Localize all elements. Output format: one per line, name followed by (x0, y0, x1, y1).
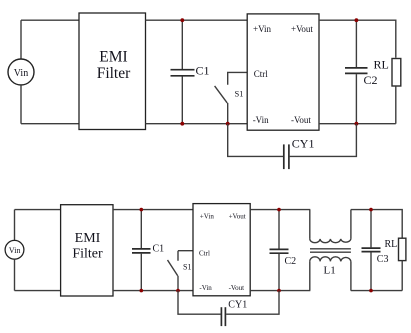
svg-text:EMI: EMI (99, 48, 127, 65)
voltage source Vin (bottom circuit) (5, 240, 24, 259)
svg-text:Filter: Filter (72, 247, 103, 262)
wire top bus: Vin to EMI filter (top circuit) (21, 19, 79, 21)
junction node: C2 bottom (top circuit) (355, 122, 359, 126)
svg-text:C1: C1 (153, 243, 165, 254)
wire top bus: EMI filter to converter (top circuit) (146, 19, 248, 21)
svg-text:-Vout: -Vout (229, 284, 244, 292)
wire top bus: converter to load corner (top circuit) (319, 20, 396, 58)
junction node: S1 / bottom bus (bottom circuit) (176, 289, 180, 293)
svg-text:L1: L1 (324, 264, 336, 276)
junction node: S1 / bottom bus (top circuit) (226, 122, 230, 126)
svg-text:RL: RL (374, 58, 389, 72)
svg-text:-Vin: -Vin (253, 115, 269, 125)
svg-text:-Vin: -Vin (199, 284, 212, 292)
capacitor C3 (bottom circuit) (362, 210, 389, 291)
svg-text:EMI: EMI (75, 231, 101, 246)
junction node: C1 bottom (top circuit) (180, 122, 184, 126)
wire Ctrl tap from converter (top circuit) (228, 72, 248, 84)
svg-text:CY1: CY1 (292, 137, 315, 151)
svg-text:Ctrl: Ctrl (254, 69, 269, 79)
wire top bus: converter to L1 (bottom circuit) (250, 209, 310, 211)
junction node: C2 top (bottom circuit) (277, 208, 281, 212)
svg-text:Vin: Vin (14, 68, 28, 79)
wire top bus: EMI filter to converter (bottom circuit) (113, 209, 193, 211)
wire top bus: Vin to EMI filter (bottom circuit) (15, 209, 61, 211)
common-mode choke L1 (bottom circuit) (310, 210, 351, 291)
capacitor C1 (top circuit) (171, 20, 210, 124)
wire left branch lower: Vin source bottom lead (top circuit) (20, 85, 22, 124)
wire left branch upper: Vin source top lead (top circuit) (20, 20, 22, 59)
capacitor C1 (bottom circuit) (132, 210, 164, 291)
voltage source Vin (top circuit) (8, 59, 34, 85)
switch S1 (bottom circuit) (168, 260, 192, 291)
switch S1 (top circuit) (215, 86, 244, 124)
junction node: C3 bottom (bottom circuit) (369, 289, 373, 293)
capacitor C2 (bottom circuit) (270, 210, 297, 291)
capacitor CY1 (top circuit) (228, 124, 357, 169)
wire right branch lower: RL to bottom bus (bottom circuit) (401, 261, 403, 291)
junction node: C1 top (bottom circuit) (140, 208, 144, 212)
svg-text:+Vout: +Vout (229, 213, 246, 221)
wire bottom bus: EMI filter to converter (bottom circuit) (113, 290, 193, 292)
resistor RL (top circuit) (374, 58, 401, 87)
wire top bus: L1 to load corner (bottom circuit) (351, 210, 402, 239)
wire right branch lower: RL to bottom bus (top circuit) (395, 86, 397, 124)
wire bottom bus: converter to load (top circuit) (319, 123, 396, 125)
svg-text:S1: S1 (235, 89, 244, 99)
svg-text:S1: S1 (183, 262, 191, 271)
junction node: C3 top (bottom circuit) (369, 208, 373, 212)
svg-text:Filter: Filter (97, 65, 131, 82)
svg-text:-Vout: -Vout (291, 115, 311, 125)
svg-text:C2: C2 (364, 73, 378, 87)
wire bottom bus: Vin to EMI filter (bottom circuit) (15, 290, 61, 292)
svg-text:Ctrl: Ctrl (199, 250, 210, 258)
svg-text:+Vin: +Vin (200, 213, 215, 221)
EMI Filter block (top circuit) (79, 13, 146, 130)
junction node: C1 top (top circuit) (180, 18, 184, 22)
EMI Filter block (bottom circuit) (61, 205, 113, 296)
svg-text:+Vout: +Vout (291, 24, 313, 34)
svg-text:Vin: Vin (9, 246, 21, 255)
wire bottom bus: Vin to EMI filter (top circuit) (21, 123, 79, 125)
wire left branch lower: Vin source bottom lead (bottom circuit) (14, 259, 16, 290)
wire left branch upper: Vin source top lead (bottom circuit) (14, 210, 16, 241)
svg-text:C2: C2 (285, 256, 297, 267)
svg-text:+Vin: +Vin (253, 24, 272, 34)
wire Ctrl tap from converter (bottom circuit) (178, 251, 193, 261)
wire bottom bus: L1 to load (bottom circuit) (351, 290, 402, 292)
svg-text:RL: RL (385, 239, 398, 250)
DC-DC converter block U1 (top circuit) (247, 14, 319, 130)
svg-text:C3: C3 (377, 254, 389, 265)
junction node: C1 bottom (bottom circuit) (140, 289, 144, 293)
capacitor CY1 (bottom circuit) (178, 291, 279, 327)
wire bottom bus: converter to L1 (bottom circuit) (250, 290, 310, 292)
resistor RL (bottom circuit) (385, 238, 406, 260)
wire bottom bus: EMI filter to converter (top circuit) (146, 123, 248, 125)
DC-DC converter block U1 (bottom circuit) (193, 204, 250, 296)
junction node: C2 bottom (bottom circuit) (277, 289, 281, 293)
capacitor C2 (top circuit) (345, 20, 378, 124)
junction node: C2 top (top circuit) (355, 18, 359, 22)
svg-text:C1: C1 (196, 64, 210, 78)
svg-text:CY1: CY1 (228, 300, 247, 311)
